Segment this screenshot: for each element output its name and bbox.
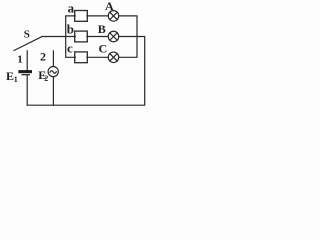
svg-text:1: 1 — [14, 75, 18, 84]
svg-text:c: c — [67, 40, 73, 55]
svg-text:A: A — [105, 0, 114, 13]
svg-text:1: 1 — [17, 53, 23, 65]
svg-text:S: S — [24, 29, 30, 41]
svg-text:2: 2 — [44, 74, 48, 83]
svg-text:b: b — [67, 21, 74, 36]
svg-text:B: B — [98, 22, 106, 36]
svg-text:C: C — [99, 41, 108, 55]
svg-text:a: a — [68, 1, 75, 16]
svg-text:2: 2 — [40, 50, 46, 64]
